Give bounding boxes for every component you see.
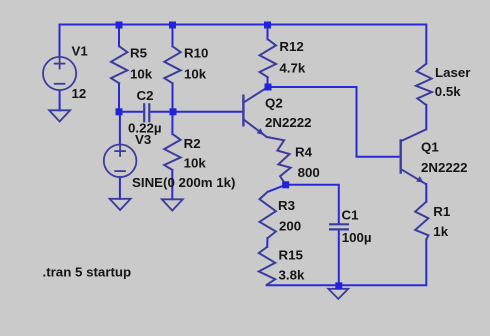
svg-text:R15: R15	[279, 247, 304, 262]
capacitor C1 plates	[329, 224, 349, 229]
wire R2 bottom lead	[171, 170, 173, 199]
svg-text:100µ: 100µ	[342, 230, 372, 245]
node R4/R3/C1	[282, 181, 289, 188]
wire top rail with V1 riser and Laser drop	[60, 25, 427, 64]
wire Q2 base wire	[173, 111, 243, 113]
svg-text:10k: 10k	[130, 67, 153, 82]
svg-text:V1: V1	[72, 44, 89, 59]
wire V1 to ground	[59, 90, 61, 110]
node R10/C2/R2/Q2 base	[170, 108, 177, 115]
svg-text:R5: R5	[130, 46, 148, 61]
resistor R10 body	[164, 46, 180, 83]
ground under V3	[110, 199, 131, 210]
resistor R12 body	[260, 39, 276, 77]
svg-text:V3: V3	[135, 132, 151, 147]
node top of R5	[116, 22, 123, 29]
resistor R1 body	[415, 202, 428, 240]
svg-text:.tran 5 startup: .tran 5 startup	[43, 265, 132, 280]
resistor R15 body	[259, 247, 275, 285]
transistor Q1	[401, 129, 427, 184]
node R12 bottom / Q2 collector	[265, 84, 272, 91]
wire R12 bottom lead	[267, 77, 269, 87]
svg-text:3.8k: 3.8k	[279, 267, 305, 282]
svg-text:12: 12	[72, 86, 87, 101]
svg-text:200: 200	[279, 218, 301, 233]
svg-text:R12: R12	[279, 39, 303, 54]
ground under R2	[162, 199, 183, 210]
svg-text:R2: R2	[184, 136, 201, 151]
wire R4 junction to C1 wire	[286, 185, 339, 223]
wire R2 top lead	[171, 112, 173, 134]
resistor R3 top diagonal lead	[268, 185, 286, 192]
svg-text:R3: R3	[278, 198, 295, 213]
svg-text:C2: C2	[137, 88, 154, 103]
svg-text:C1: C1	[342, 208, 360, 223]
wire C2 right wire	[150, 111, 173, 113]
resistor R4 body (diagonal)	[267, 137, 291, 185]
svg-text:R4: R4	[295, 145, 313, 160]
svg-text:2N2222: 2N2222	[421, 160, 468, 175]
ground at bottom rail	[328, 289, 348, 299]
wire Q1 emitter wire	[425, 184, 427, 202]
wire C1 bottom wire	[338, 230, 340, 285]
node bottom rail ground	[335, 282, 342, 289]
wire V3 top wire	[118, 112, 121, 145]
svg-text:R10: R10	[184, 46, 208, 61]
svg-text:10k: 10k	[184, 155, 207, 170]
svg-text:10k: 10k	[184, 67, 207, 82]
svg-text:2N2222: 2N2222	[265, 115, 312, 130]
wire Q2 collector to Q1 base rail	[268, 87, 400, 157]
svg-text:R1: R1	[433, 204, 451, 219]
wire R10 bottom lead	[172, 83, 174, 112]
voltage source V3	[104, 145, 137, 178]
wire R1 bottom to ground rail	[267, 240, 427, 285]
resistor Laser body	[416, 64, 432, 105]
resistor R3 body	[260, 192, 276, 238]
wire R15 to R3 link	[266, 238, 268, 247]
resistor R2 body	[164, 134, 180, 170]
svg-text:1k: 1k	[433, 224, 448, 239]
voltage source V1	[43, 57, 76, 90]
wire V3 to ground	[119, 177, 121, 199]
svg-text:4.7k: 4.7k	[279, 61, 305, 76]
wire R5 top lead	[118, 25, 120, 47]
wire R12 top lead	[267, 25, 269, 40]
svg-text:800: 800	[298, 165, 320, 180]
ground under V1	[49, 110, 70, 121]
node top of R10	[169, 22, 176, 29]
wire C2 left wire	[119, 111, 143, 113]
svg-text:Q2: Q2	[265, 95, 283, 110]
resistor R5 body	[111, 46, 127, 83]
capacitor C2 plates	[144, 103, 149, 122]
svg-text:Q1: Q1	[421, 139, 439, 154]
node R5/C2/V3	[116, 108, 123, 115]
svg-text:0.5k: 0.5k	[435, 84, 461, 99]
svg-text:Laser: Laser	[435, 65, 470, 80]
wire R10 top lead	[172, 25, 174, 47]
wire Laser bottom lead	[425, 105, 427, 130]
svg-text:SINE(0 200m 1k): SINE(0 200m 1k)	[132, 175, 235, 190]
transistor Q2	[243, 88, 267, 137]
wire R5 bottom lead	[118, 83, 120, 112]
node top of R12	[264, 22, 271, 29]
